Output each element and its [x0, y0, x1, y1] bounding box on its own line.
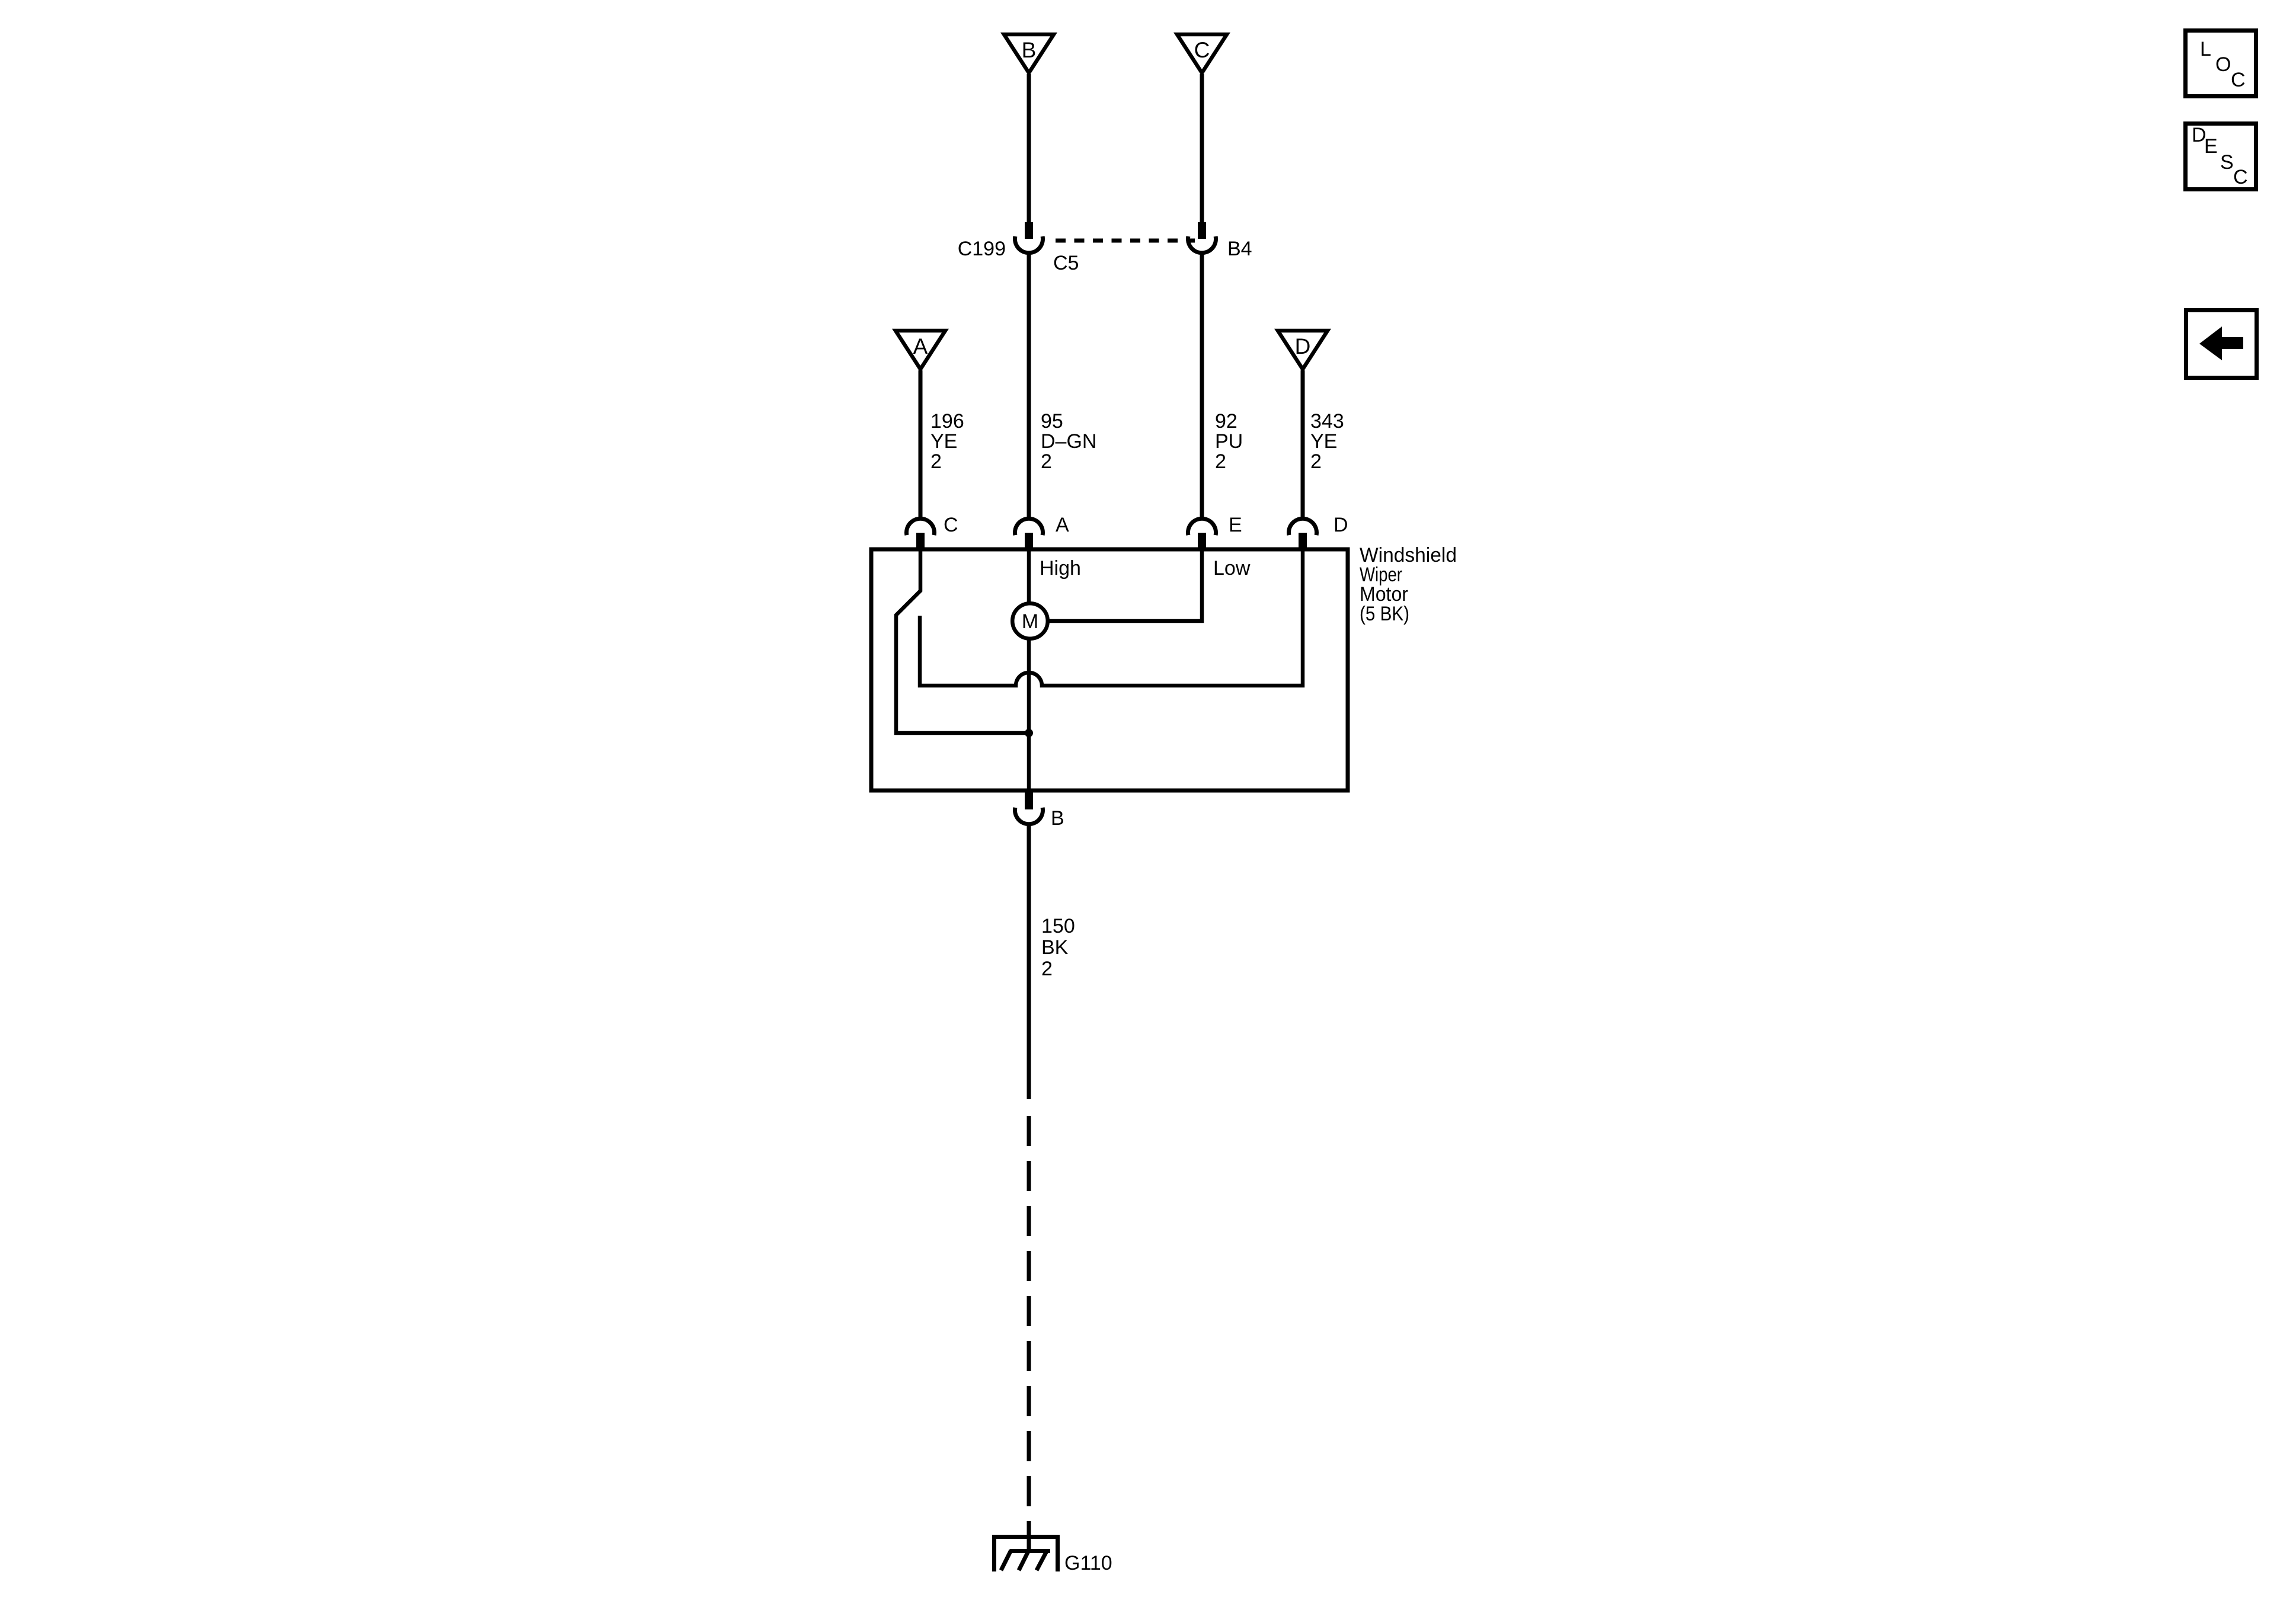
- wire 95 D-GN from C199 to motor pin A: [1027, 255, 1031, 520]
- svg-text:C5: C5: [1053, 252, 1079, 274]
- svg-text:D: D: [1334, 514, 1348, 536]
- svg-text:BK: BK: [1041, 936, 1069, 959]
- ground G110 chassis symbol: [994, 1537, 1058, 1572]
- LOC button: [2186, 31, 2256, 97]
- motor pin B socket (female half): [1015, 808, 1043, 824]
- svg-text:A: A: [913, 334, 928, 359]
- label Windshield Wiper Motor (5 BK): [1360, 544, 1457, 625]
- svg-text:M: M: [1022, 610, 1038, 633]
- svg-text:C: C: [2231, 69, 2246, 91]
- svg-text:(5 BK): (5 BK): [1360, 603, 1409, 625]
- svg-text:2: 2: [930, 450, 942, 473]
- wire 150 BK dashed segment to ground: [1027, 1116, 1031, 1551]
- motor pin B (male terminal): [1025, 790, 1033, 809]
- wire 92 PU from B4 to motor pin E: [1200, 255, 1204, 520]
- svg-text:L: L: [2200, 38, 2211, 60]
- wire armature to junction and motor pin B: [1027, 639, 1031, 790]
- wire 150 BK solid segment: [1027, 826, 1031, 1099]
- svg-text:B: B: [1022, 38, 1037, 62]
- svg-text:2: 2: [1215, 450, 1226, 473]
- junction node: [1025, 729, 1033, 737]
- svg-text:2: 2: [1310, 450, 1322, 473]
- svg-text:YE: YE: [930, 430, 957, 453]
- park switch blade from pin C to common junction: [896, 549, 1029, 733]
- svg-text:PU: PU: [1215, 430, 1243, 453]
- motor connector pin D (dome, pin, label): [1289, 514, 1348, 550]
- svg-text:343: 343: [1310, 410, 1344, 433]
- svg-text:196: 196: [930, 410, 964, 433]
- wire 196 YE from triangle A to motor pin C: [919, 370, 923, 520]
- svg-text:B4: B4: [1227, 238, 1252, 260]
- svg-text:C: C: [1194, 38, 1210, 62]
- wire label 95 D-GN 2: [1041, 410, 1096, 473]
- wire armature to motor pin E (Low winding): [1048, 549, 1202, 621]
- connector B4 socket (female half): [1188, 236, 1216, 253]
- svg-text:E: E: [2204, 135, 2218, 158]
- off-page connector triangle C: [1177, 34, 1227, 73]
- svg-text:150: 150: [1041, 915, 1075, 937]
- wire 343 YE from triangle D to motor pin D: [1301, 370, 1305, 520]
- wire from triangle C down to connector B4: [1200, 74, 1204, 223]
- wire label 196 YE 2: [930, 410, 964, 473]
- motor connector pin A (dome, pin, label): [1015, 514, 1070, 550]
- connector C199 socket (female half): [1015, 236, 1043, 253]
- svg-text:YE: YE: [1310, 430, 1337, 453]
- run contact wire from pin D with hop over armature wire: [920, 549, 1303, 686]
- off-page connector triangle A: [896, 331, 945, 369]
- svg-text:E: E: [1229, 514, 1242, 536]
- motor armature M: [1012, 603, 1048, 639]
- svg-text:2: 2: [1041, 958, 1053, 980]
- svg-text:S: S: [2220, 151, 2234, 174]
- motor connector pin C (dome, pin, label): [907, 514, 958, 550]
- svg-text:2: 2: [1041, 450, 1052, 473]
- svg-text:92: 92: [1215, 410, 1237, 433]
- windshield wiper motor box: [871, 549, 1348, 790]
- svg-text:D: D: [1295, 334, 1311, 359]
- svg-text:C: C: [944, 514, 958, 536]
- wire label 92 PU 2: [1215, 410, 1243, 473]
- svg-text:High: High: [1040, 557, 1081, 580]
- svg-text:G110: G110: [1064, 1552, 1112, 1574]
- connector B4 pin (male terminal): [1198, 222, 1206, 239]
- off-page connector triangle B: [1004, 34, 1054, 73]
- svg-text:A: A: [1056, 514, 1069, 536]
- svg-text:C199: C199: [958, 238, 1006, 260]
- svg-text:C: C: [2233, 166, 2248, 188]
- svg-text:95: 95: [1041, 410, 1063, 433]
- motor connector pin E (dome, pin, label): [1188, 514, 1242, 550]
- svg-text:B: B: [1051, 807, 1064, 830]
- DESC button: [2186, 124, 2256, 190]
- svg-text:D–GN: D–GN: [1041, 430, 1096, 453]
- svg-text:O: O: [2215, 53, 2231, 76]
- wire label 343 YE 2: [1310, 410, 1344, 473]
- dashed harness tie line C199 to B4: [1056, 239, 1195, 243]
- wire motor pin A to armature (High winding): [1027, 549, 1031, 602]
- wire label 150 BK 2: [1041, 915, 1075, 980]
- off-page connector triangle D: [1278, 331, 1328, 369]
- connector C199 pin C5 (male terminal): [1025, 222, 1033, 239]
- wire from triangle B down to connector C199: [1027, 74, 1031, 223]
- back arrow button: [2186, 311, 2257, 378]
- svg-text:Low: Low: [1213, 557, 1251, 580]
